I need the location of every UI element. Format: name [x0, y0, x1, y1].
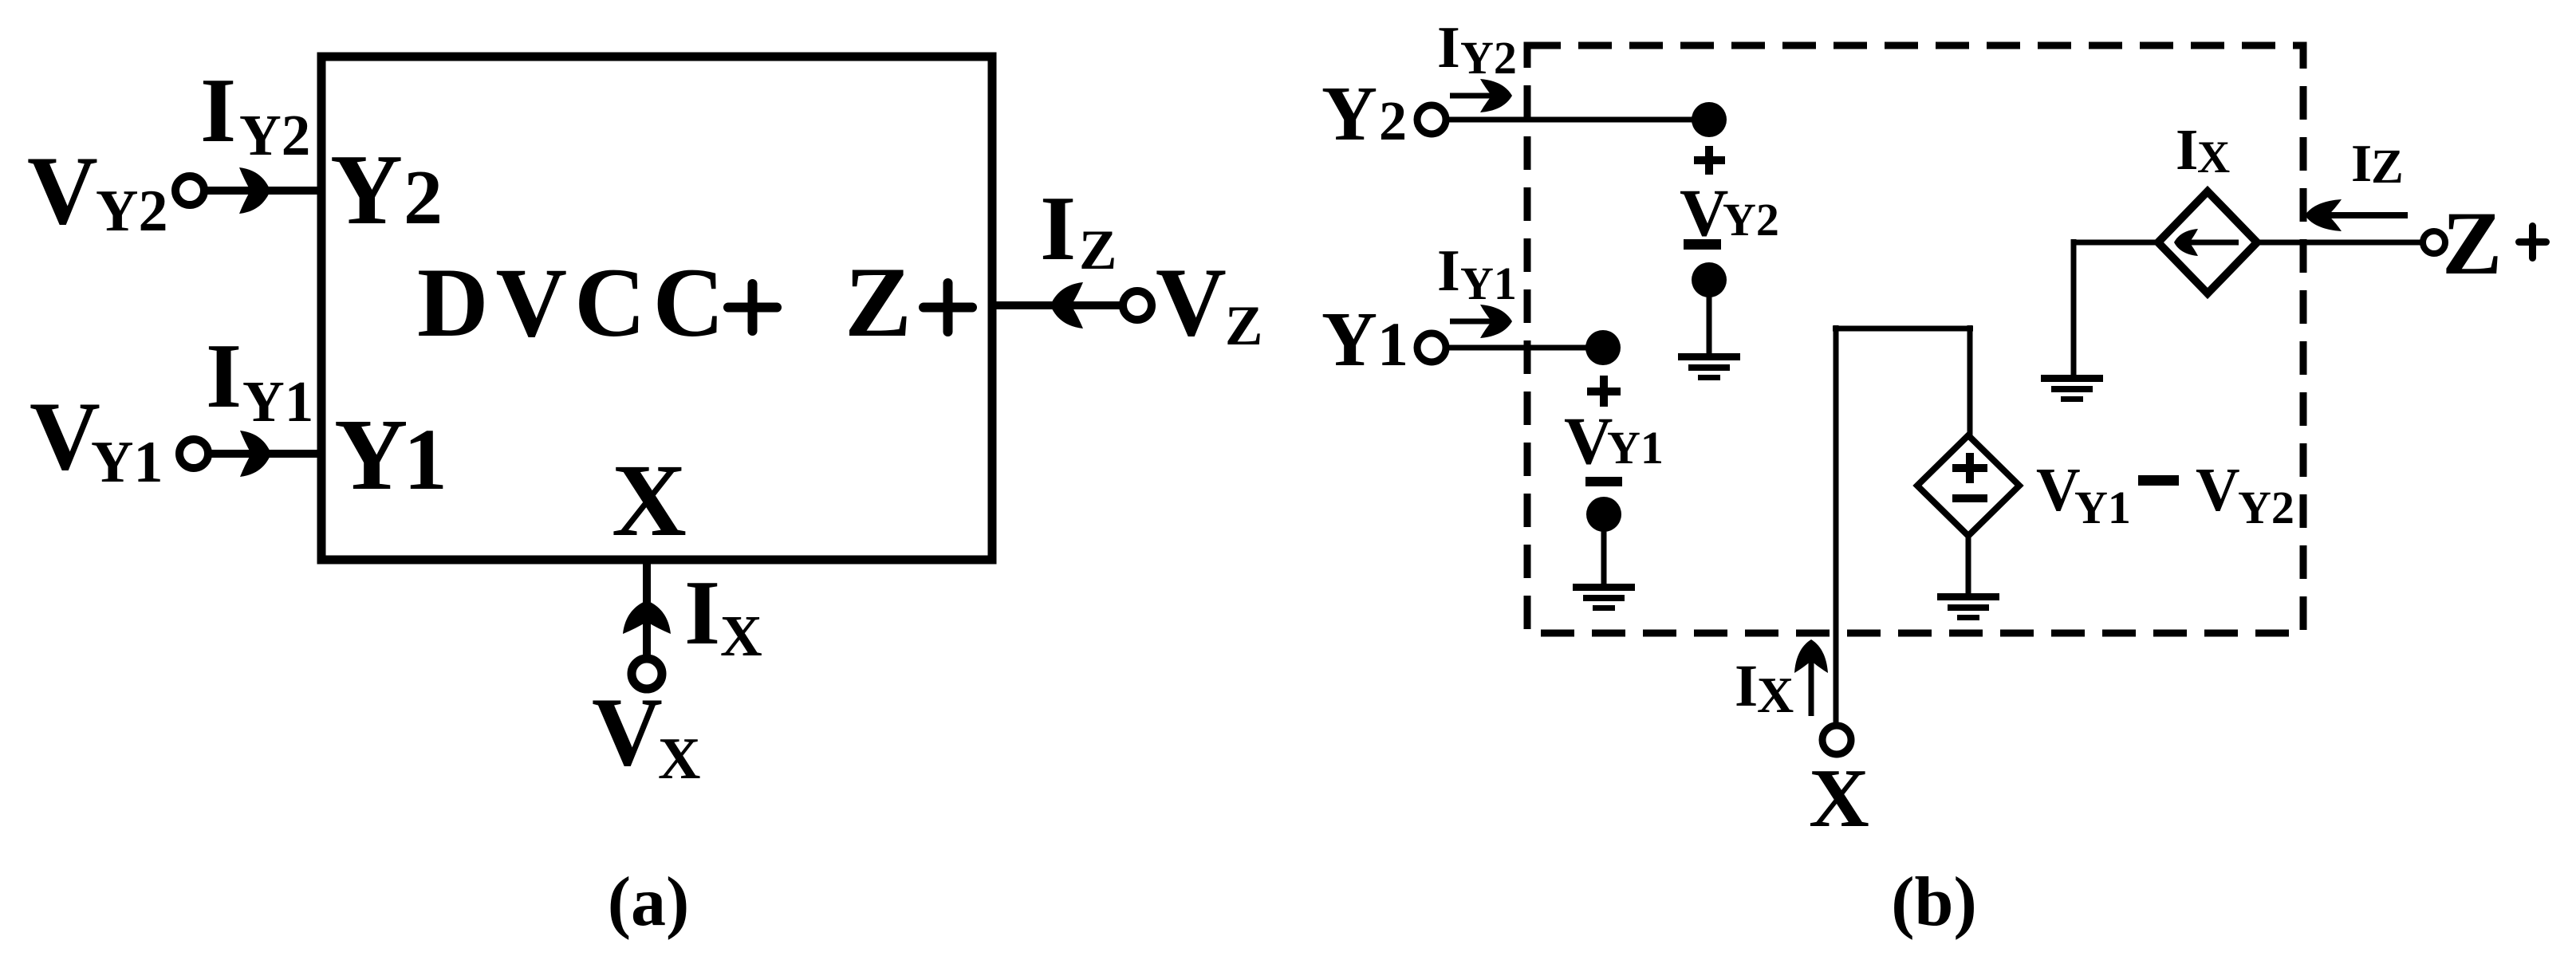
svg-text:1: 1: [1377, 309, 1408, 379]
svg-text:(b): (b): [1891, 864, 1977, 941]
svg-text:Z: Z: [1079, 219, 1117, 281]
svg-text:X: X: [720, 604, 762, 668]
svg-text:Z: Z: [2371, 140, 2404, 194]
svg-text:X: X: [1757, 667, 1794, 723]
svg-text:V: V: [592, 677, 663, 786]
svg-text:Y2: Y2: [2238, 482, 2294, 533]
svg-text:I: I: [1437, 238, 1460, 304]
svg-text:DVCC: DVCC: [417, 248, 731, 357]
svg-text:X: X: [2197, 132, 2230, 183]
svg-text:Y: Y: [1321, 71, 1377, 156]
svg-text:I: I: [1040, 178, 1076, 280]
svg-text:X: X: [612, 443, 687, 558]
svg-text:Y1: Y1: [1607, 422, 1664, 474]
svg-text:Y: Y: [334, 398, 408, 511]
svg-text:Y1: Y1: [2074, 482, 2131, 533]
svg-text:Z: Z: [2442, 194, 2502, 293]
svg-text:V: V: [27, 136, 98, 245]
svg-text:2: 2: [404, 155, 443, 241]
svg-text:Z: Z: [1225, 295, 1262, 357]
svg-text:Z: Z: [845, 247, 912, 358]
svg-text:Y2: Y2: [1723, 194, 1779, 246]
svg-text:X: X: [1809, 751, 1869, 844]
svg-text:Y2: Y2: [96, 179, 167, 244]
svg-text:2: 2: [1379, 91, 1407, 152]
svg-text:Y: Y: [1321, 297, 1377, 382]
svg-text:I: I: [206, 325, 242, 427]
svg-text:V: V: [30, 381, 100, 490]
svg-text:I: I: [2176, 117, 2198, 182]
svg-text:V: V: [1564, 403, 1613, 478]
svg-text:Y: Y: [330, 135, 403, 246]
svg-text:Y1: Y1: [91, 430, 163, 495]
svg-text:V: V: [1680, 175, 1728, 250]
svg-text:I: I: [1437, 15, 1460, 81]
svg-text:Y1: Y1: [242, 369, 313, 434]
svg-text:I: I: [200, 60, 236, 162]
svg-text:I: I: [2351, 134, 2372, 193]
svg-text:(a): (a): [608, 864, 690, 941]
svg-text:Y1: Y1: [1460, 258, 1517, 309]
svg-text:V: V: [1156, 247, 1227, 356]
svg-text:X: X: [658, 726, 700, 792]
svg-text:I: I: [684, 562, 720, 664]
svg-text:I: I: [1735, 653, 1758, 719]
svg-text:V: V: [2196, 455, 2240, 524]
svg-text:Y2: Y2: [239, 103, 310, 167]
svg-text:1: 1: [404, 411, 447, 508]
svg-text:Y2: Y2: [1460, 32, 1517, 84]
